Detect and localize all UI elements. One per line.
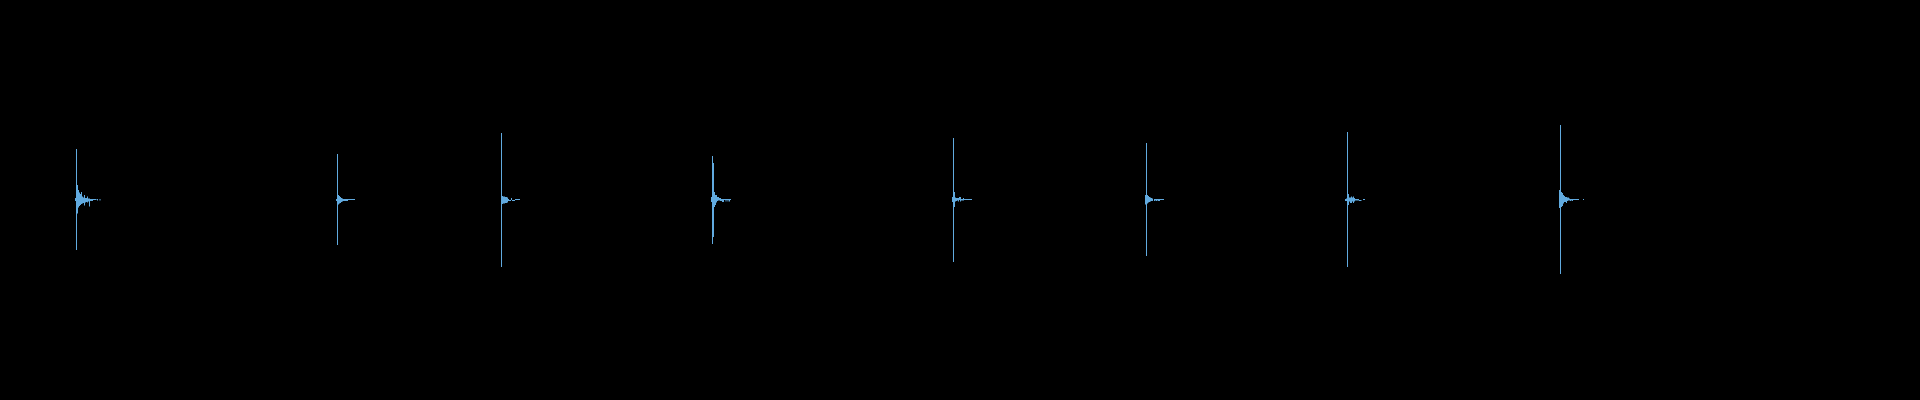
spike 4 transient waveform: [711, 156, 731, 244]
spike 2 transient waveform: [336, 154, 355, 245]
spike 1 transient waveform: [75, 149, 101, 250]
spike 8 transient waveform: [1559, 125, 1584, 274]
spike 6 transient waveform: [1145, 143, 1164, 256]
spike 3 transient waveform: [501, 133, 520, 267]
spike 7 transient waveform: [1345, 132, 1365, 267]
spike 5 transient waveform: [952, 138, 972, 262]
